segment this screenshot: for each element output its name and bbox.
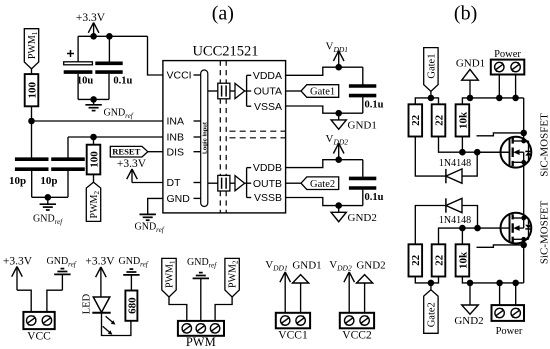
svg-text:1N4148: 1N4148: [439, 158, 471, 169]
ground GND_ref under C1 C2: [85, 99, 133, 120]
node gate1 rail: [428, 95, 435, 102]
wire DIS: [148, 151, 163, 153]
wire kelvin stub 2: [477, 245, 524, 247]
pin VSSB: [254, 192, 282, 204]
wire Gate2-node: [430, 283, 432, 290]
isolation transformer channel A: [208, 83, 245, 99]
transistor Q2 SiC-MOSFET: [501, 200, 550, 264]
svg-text:OUTA: OUTA: [254, 86, 282, 98]
wire VDDA out: [286, 67, 363, 75]
svg-text:DT: DT: [167, 177, 182, 189]
wire Q1 gate lead: [477, 151, 509, 153]
svg-text:+3.3V: +3.3V: [3, 256, 33, 268]
wire +3.3V rail: [78, 35, 147, 37]
resistor R6 22: [409, 244, 423, 276]
svg-text:VDDA: VDDA: [253, 70, 282, 82]
svg-text:1N4148: 1N4148: [439, 215, 471, 226]
wire VCCI: [148, 36, 163, 75]
power +3.3V DT arrow: [117, 158, 147, 182]
capacitor C1 10u: [64, 36, 94, 99]
isolation transformer channel B: [208, 175, 245, 191]
svg-text:10u: 10u: [77, 76, 94, 87]
wire VDDB out: [286, 160, 363, 168]
capacitor C4 10p: [40, 137, 84, 197]
wire D3-gate: [462, 206, 478, 229]
resistor R7 22: [432, 244, 446, 276]
LED arrows: [103, 316, 116, 334]
ground GND2 channel B: [331, 206, 377, 224]
flag PWM2: [86, 182, 101, 221]
svg-text:Logic Input: Logic Input: [202, 122, 208, 154]
connector J2 PWM: [178, 321, 224, 349]
wire Power1 right: [515, 75, 517, 98]
svg-text:VCC2: VCC2: [342, 330, 372, 342]
pin VSSA: [254, 101, 282, 113]
wire OUTB: [286, 182, 301, 184]
wire drain2: [523, 239, 525, 283]
svg-text:22: 22: [410, 254, 422, 266]
flag PWM1: [24, 29, 39, 69]
node GND1a: [335, 110, 342, 117]
svg-text:INB: INB: [167, 132, 185, 144]
node D3 gate: [474, 225, 481, 232]
wire GND1 rail b: [462, 98, 523, 104]
wire DT: [132, 182, 163, 184]
channel separator dashed lines: [230, 131, 286, 138]
node VDD1: [335, 64, 342, 71]
wire R8-gateline2: [461, 228, 463, 244]
wire INA-C3: [31, 121, 33, 158]
svg-text:PWM: PWM: [186, 335, 216, 349]
node R5 gate: [459, 149, 466, 156]
ground GND_ref at LED: [119, 256, 149, 291]
wire kelvin stub 1: [477, 133, 524, 136]
wire PWM1-J2: [169, 297, 187, 321]
svg-text:RESET: RESET: [112, 147, 140, 157]
svg-text:GND2: GND2: [454, 315, 483, 327]
svg-text:GND2: GND2: [356, 260, 385, 272]
flag PWM1 j: [162, 258, 177, 297]
svg-text:22: 22: [410, 114, 422, 126]
wire D2-gate: [462, 152, 477, 176]
flag Gate1 b: [424, 48, 438, 92]
wire INB-R2: [93, 137, 95, 145]
wire OUTA: [286, 90, 301, 92]
power VDD1 arrow: [326, 41, 349, 68]
svg-text:VSSB: VSSB: [254, 192, 282, 204]
flag RESET: [110, 146, 148, 157]
wire R4-gateline: [439, 137, 510, 153]
pin VDDB: [253, 162, 282, 174]
power +3.3V at VCC: [3, 256, 33, 291]
svg-text:GND1: GND1: [456, 57, 485, 69]
node kelvin 2: [520, 242, 527, 249]
connector J1 VCC: [23, 312, 54, 343]
resistor R9 680: [125, 291, 138, 321]
pin OUTA: [254, 86, 282, 98]
node gnd junction: [90, 96, 97, 103]
capacitor C2 0.1u: [95, 36, 132, 99]
op-amp U1 UCC21521 box: [163, 44, 286, 213]
node R8 gate: [459, 225, 466, 232]
svg-text:(b): (b): [454, 3, 477, 25]
svg-text:PWM2: PWM2: [89, 191, 101, 219]
svg-text:10k: 10k: [457, 251, 469, 269]
node Power2 left: [496, 280, 503, 287]
svg-text:100: 100: [26, 81, 38, 98]
wire INA: [32, 120, 163, 122]
wire C1-C2 bottom: [78, 98, 109, 100]
svg-text:GND: GND: [167, 193, 191, 205]
pin INA: [167, 116, 201, 128]
node Power2 right: [512, 280, 519, 287]
capacitor C5 0.1u: [349, 67, 384, 113]
resistor R2 100: [87, 145, 101, 175]
svg-text:GND2: GND2: [348, 212, 377, 224]
wire R2-PWM2: [93, 174, 95, 182]
pin VDDA: [253, 70, 282, 82]
wire gate1 rail: [415, 98, 438, 104]
resistor R4 22: [432, 104, 446, 136]
svg-text:SiC-MOSFET: SiC-MOSFET: [538, 113, 550, 177]
power VDD2 arrow: [326, 133, 349, 160]
pin INB: [167, 132, 201, 144]
buffer bracket B: [245, 168, 252, 198]
wire VCC right: [47, 290, 63, 312]
pin VCCI: [167, 70, 201, 82]
svg-text:(a): (a): [212, 3, 234, 25]
node rail-C2: [106, 33, 113, 40]
node gate2 rail: [428, 280, 435, 287]
svg-text:Power: Power: [496, 326, 523, 337]
connector J3 VCC1: [276, 313, 310, 342]
ground GND2 b: [454, 283, 483, 327]
ground GND1 channel A: [331, 113, 377, 131]
flag PWM2 j: [225, 258, 240, 297]
node D2 gate: [474, 149, 481, 156]
pin DT: [167, 177, 201, 189]
svg-text:DIS: DIS: [167, 146, 185, 158]
ground GND1 b: [456, 57, 485, 98]
svg-text:UCC21521: UCC21521: [192, 44, 258, 60]
svg-text:Gate1: Gate1: [310, 87, 335, 98]
wire R6-D3: [415, 206, 446, 245]
svg-text:0.1u: 0.1u: [113, 75, 132, 86]
svg-text:0.1u: 0.1u: [365, 192, 384, 203]
wire GND pin: [148, 198, 163, 214]
svg-text:+3.3V: +3.3V: [76, 12, 106, 24]
wire caps bottom: [32, 196, 68, 198]
power VDD2 at J4: [329, 259, 354, 313]
diode D3 1N4148: [439, 198, 471, 226]
svg-text:10p: 10p: [9, 175, 26, 187]
wire Q1 source to Q2: [523, 162, 525, 218]
node GND2 stem: [467, 280, 474, 287]
ground GND_ref under 10p caps: [33, 197, 63, 226]
resistor R3 22: [409, 104, 423, 136]
pin OUTB: [253, 178, 282, 190]
label (b): [454, 3, 477, 25]
svg-text:PWM1: PWM1: [164, 260, 176, 288]
svg-text:PWM1: PWM1: [27, 31, 39, 59]
power +3.3V at LED: [85, 256, 115, 298]
ground GND_ref at PWM: [187, 257, 217, 321]
node INA: [28, 118, 35, 125]
svg-text:GND1: GND1: [292, 260, 321, 272]
wire VSSB out: [286, 198, 363, 206]
wire R1-INA: [31, 106, 33, 121]
flag Gate2 b: [424, 290, 438, 334]
svg-text:+3.3V: +3.3V: [117, 158, 147, 170]
label (a): [212, 3, 234, 25]
transistor Q1 SiC-MOSFET: [501, 113, 550, 177]
power +3.3V supply arrow: [76, 12, 106, 36]
svg-text:OUTB: OUTB: [253, 178, 282, 190]
svg-text:VDDB: VDDB: [253, 162, 282, 174]
node Power1 right: [512, 95, 519, 102]
svg-text:Gate2: Gate2: [427, 302, 438, 327]
svg-text:0.1u: 0.1u: [365, 100, 384, 111]
resistor R5 10k: [456, 104, 470, 136]
ground GND_ref at GND pin: [135, 214, 165, 234]
wire GND2 rail b: [462, 277, 523, 283]
wire gate2 rail: [415, 277, 438, 283]
wire flag-R1: [31, 69, 33, 74]
svg-text:10p: 10p: [40, 175, 57, 187]
svg-text:GND1: GND1: [348, 120, 377, 132]
wire PWM2-J2: [215, 297, 232, 321]
node Power1 left: [496, 95, 503, 102]
power VDD1 at J3: [265, 259, 290, 313]
LED D1: [82, 293, 111, 314]
node GND2a: [335, 202, 342, 209]
svg-text:22: 22: [433, 254, 445, 266]
svg-text:22: 22: [433, 114, 445, 126]
wire Gate1-node: [430, 91, 432, 98]
svg-text:PWM2: PWM2: [228, 260, 240, 288]
ground GND1 at J3: [292, 260, 321, 313]
svg-text:SiC-MOSFET: SiC-MOSFET: [538, 200, 550, 264]
flag Gate1 out: [301, 85, 339, 98]
pin DIS: [167, 146, 201, 158]
svg-text:100: 100: [88, 151, 100, 168]
svg-text:Gate2: Gate2: [310, 179, 335, 190]
svg-text:Power: Power: [494, 49, 521, 60]
capacitor C3 10p: [9, 159, 48, 197]
wire VCC left: [17, 290, 31, 312]
wire VSSA out: [286, 106, 363, 113]
pin GND: [167, 193, 201, 205]
svg-text:VCC: VCC: [27, 331, 51, 343]
flag Gate2 out: [301, 177, 339, 190]
capacitor C6 0.1u: [349, 160, 384, 206]
node VDD2: [335, 156, 342, 163]
node caps gnd: [45, 194, 52, 201]
svg-text:VSSA: VSSA: [254, 101, 282, 113]
svg-text:VCCI: VCCI: [167, 70, 192, 82]
wire R3-D2: [415, 137, 446, 177]
svg-text:680: 680: [126, 297, 138, 314]
buffer bracket A: [245, 75, 252, 106]
svg-text:Gate1: Gate1: [427, 54, 438, 79]
svg-text:+3.3V: +3.3V: [85, 256, 115, 268]
svg-text:INA: INA: [167, 116, 185, 128]
isolation barrier dashed lines: [220, 61, 226, 213]
svg-text:LED: LED: [82, 293, 93, 314]
ground GND_ref at VCC: [47, 256, 77, 290]
wire Power2 right: [515, 283, 517, 305]
wire LED cathode: [102, 313, 131, 336]
wire R7-gateline2: [439, 228, 510, 244]
diode D2 1N4148: [439, 158, 471, 183]
wire Power2 left: [499, 283, 501, 305]
connector J4 VCC2: [340, 313, 374, 342]
wire R5-gateline: [461, 137, 463, 153]
svg-text:VCC1: VCC1: [278, 330, 308, 342]
wire drain1: [523, 98, 525, 141]
node GND1 stem: [467, 95, 474, 102]
node kelvin 1: [520, 130, 527, 137]
svg-text:10k: 10k: [457, 111, 469, 129]
wire INB: [68, 136, 163, 138]
resistor R8 10k: [456, 244, 470, 276]
logic input block: [201, 70, 209, 207]
connector Power2: [492, 305, 525, 337]
node INB: [90, 134, 97, 141]
resistor R1 100: [25, 74, 39, 106]
node rail-C1: [90, 33, 97, 40]
ground GND2 at J4: [356, 260, 385, 313]
connector Power1: [491, 49, 525, 74]
wire Power1 left: [498, 75, 500, 98]
